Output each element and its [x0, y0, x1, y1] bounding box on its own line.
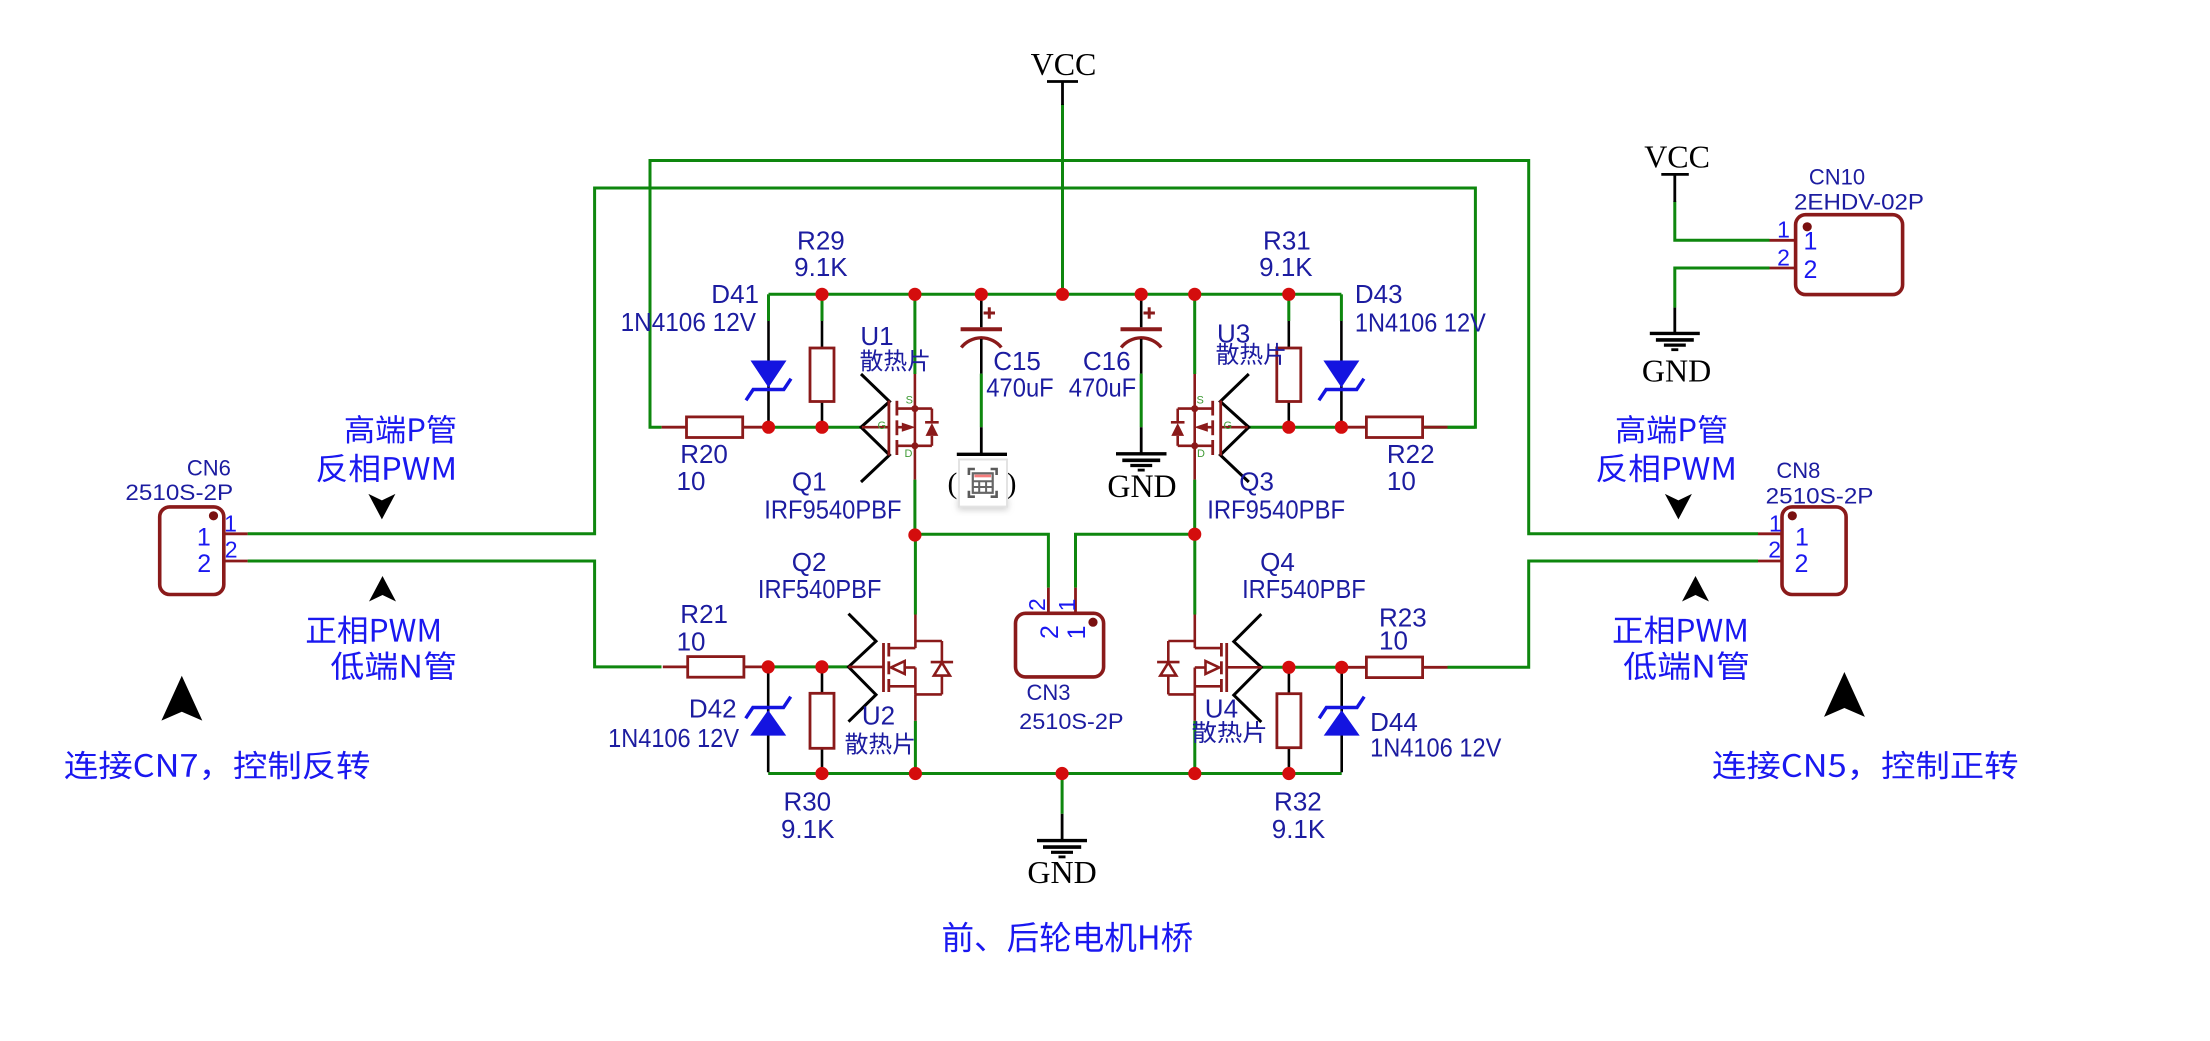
svg-text:U2: U2 — [862, 701, 895, 731]
label C15 value — [986, 346, 1053, 403]
svg-text:9.1K: 9.1K — [1259, 252, 1313, 282]
svg-text:2: 2 — [225, 537, 238, 563]
svg-text:10: 10 — [1387, 466, 1416, 496]
wire CN10.1 from VCC — [1675, 201, 1770, 240]
junction dots gate node left top — [762, 421, 829, 434]
label U3 — [1217, 318, 1250, 348]
junction dots bottom rail — [815, 767, 1295, 780]
wire Q2 drain from motor node — [914, 534, 917, 614]
svg-text:D42: D42 — [689, 694, 737, 724]
svg-text:D41: D41 — [711, 279, 759, 309]
wire bottom GND rail — [768, 772, 1341, 775]
label U1 heatsink text — [861, 349, 929, 371]
wire motor node right to CN3.1 — [1076, 534, 1195, 588]
tooltip icon overlay near C15 GND — [958, 460, 1008, 511]
transistor Q2 (N-MOSFET) — [849, 615, 954, 721]
svg-text:2: 2 — [1804, 256, 1818, 284]
wire D41 top stub — [767, 294, 770, 321]
label U4 — [1205, 694, 1238, 724]
label CN8 — [1766, 458, 1874, 509]
resistor R31 — [1277, 321, 1301, 427]
svg-text:): ) — [1007, 468, 1017, 500]
resistor R30 — [810, 667, 834, 774]
svg-text:GND: GND — [1027, 854, 1096, 890]
svg-text:R21: R21 — [680, 599, 728, 629]
label CN6 — [125, 456, 233, 506]
svg-text:2: 2 — [1768, 537, 1781, 563]
wire CN10.2 to GND — [1675, 268, 1770, 308]
CN8 pin numbers — [1768, 511, 1809, 579]
svg-text:1N4106 12V: 1N4106 12V — [1355, 307, 1486, 337]
wire Q4 gate node — [1261, 666, 1341, 669]
label Q4 value — [1242, 547, 1366, 604]
label R29 value — [794, 226, 848, 283]
svg-text:R30: R30 — [783, 786, 831, 816]
label R32 value — [1272, 786, 1326, 844]
transistor Q1 (P-MOSFET) — [862, 374, 939, 480]
label Q1 value — [764, 466, 901, 524]
label D41 value — [621, 279, 759, 337]
label U2 heatsink text — [846, 732, 914, 754]
svg-text:GND: GND — [1642, 353, 1711, 389]
zener diode D44 — [1319, 667, 1364, 772]
arrow up left — [369, 576, 396, 602]
annotation left low-side — [307, 616, 455, 681]
wire motor node left to CN3.2 — [915, 534, 1049, 588]
ground flag under C16 — [1107, 427, 1176, 505]
Q1 pin names S G D — [877, 394, 913, 460]
label CN3 — [1019, 680, 1123, 734]
svg-text:S: S — [1197, 394, 1204, 406]
svg-text:2: 2 — [1036, 625, 1064, 639]
wire Q3 source to rail — [1193, 294, 1196, 374]
resistor R29 — [810, 321, 834, 427]
connector CN6 box — [160, 507, 248, 595]
svg-text:470uF: 470uF — [1069, 373, 1136, 403]
wire Q4 source to bottom rail — [1193, 721, 1196, 774]
annotation connect CN7 — [65, 751, 369, 780]
label R31 value — [1259, 226, 1313, 283]
connector CN3 box — [1016, 588, 1104, 677]
label R22 value — [1387, 439, 1435, 496]
svg-text:CN10: CN10 — [1809, 165, 1865, 190]
annotation connect CN5 — [1713, 751, 2017, 780]
label U2 — [862, 701, 895, 731]
svg-text:R22: R22 — [1387, 439, 1435, 469]
wire bottom GND stub — [1061, 774, 1064, 814]
CN6 pin numbers — [197, 511, 238, 579]
wire R29 top stub — [821, 294, 824, 321]
resistor R22 — [1342, 417, 1448, 438]
wire C15 mid segment — [980, 374, 983, 428]
wire C16 mid segment — [1140, 374, 1143, 428]
transistor Q4 (N-MOSFET) — [1157, 615, 1262, 721]
svg-text:IRF9540PBF: IRF9540PBF — [1207, 495, 1345, 525]
arrow up right — [1682, 576, 1709, 602]
svg-text:2510S-2P: 2510S-2P — [125, 480, 233, 505]
label D43 value — [1355, 279, 1486, 337]
resistor R20 — [662, 417, 768, 438]
title H-bridge — [943, 922, 1192, 953]
wire VCC stub to top rail — [1061, 104, 1064, 294]
label D44 value — [1370, 707, 1502, 763]
CN10 pin numbers — [1777, 217, 1817, 284]
svg-text:CN6: CN6 — [187, 456, 231, 481]
junction dots gate node right top — [1282, 421, 1348, 434]
capacitor C16 — [1121, 294, 1162, 373]
label Q3 value — [1207, 466, 1345, 524]
svg-text:1: 1 — [224, 511, 237, 537]
svg-text:1N4106 12V: 1N4106 12V — [1370, 733, 1502, 763]
svg-text:C16: C16 — [1083, 346, 1131, 376]
svg-text:D43: D43 — [1355, 279, 1403, 309]
connector CN8 box — [1758, 507, 1846, 595]
heatsink U2 — [849, 614, 877, 722]
label R21 value — [677, 599, 728, 657]
svg-text:S: S — [906, 394, 913, 406]
wire Q2 gate node — [768, 665, 848, 668]
power flag VCC top — [1031, 46, 1097, 105]
label R30 value — [781, 786, 835, 844]
svg-text:2: 2 — [1777, 245, 1790, 271]
svg-text:1: 1 — [1777, 217, 1790, 243]
wire Q3 drain to motor node — [1193, 480, 1196, 535]
svg-text:1: 1 — [1063, 625, 1091, 639]
transistor Q3 (P-MOSFET) — [1171, 374, 1248, 480]
wire Q2 source to bottom rail — [914, 721, 917, 774]
resistor R32 — [1277, 667, 1301, 773]
junction dots top rail — [815, 288, 1295, 301]
connector CN10 box — [1770, 215, 1903, 295]
svg-text:R29: R29 — [797, 226, 845, 256]
svg-text:Q1: Q1 — [792, 466, 827, 496]
zener diode D42 — [746, 667, 791, 772]
svg-text:10: 10 — [677, 627, 706, 657]
svg-text:Q2: Q2 — [792, 547, 827, 577]
svg-text:G: G — [877, 420, 886, 432]
wire Q1 gate node — [769, 426, 863, 429]
svg-text:U4: U4 — [1205, 694, 1238, 724]
junction dots motor nodes — [908, 528, 1201, 542]
resistor R23 — [1342, 657, 1448, 678]
svg-text:2510S-2P: 2510S-2P — [1019, 709, 1123, 734]
svg-text:C15: C15 — [993, 346, 1041, 376]
label U3 heatsink text — [1217, 343, 1285, 365]
junction dots gate node right bottom — [1282, 661, 1348, 674]
label R20 value — [677, 439, 728, 496]
svg-text:R32: R32 — [1274, 786, 1322, 816]
svg-text:GND: GND — [1107, 469, 1176, 505]
svg-text:G: G — [1224, 420, 1233, 432]
wire top VCC/cap rail — [769, 293, 1342, 296]
label U4 heatsink text — [1193, 721, 1266, 743]
label U1 — [860, 321, 893, 351]
heatsink U4 — [1234, 614, 1262, 722]
svg-text:2: 2 — [197, 550, 211, 578]
wire inner loop CN6.1 to R22 (net high-P right) — [248, 188, 1476, 534]
wire D43 top stub — [1340, 294, 1343, 321]
svg-text:1: 1 — [1769, 511, 1782, 537]
svg-text:1N4106 12V: 1N4106 12V — [608, 723, 740, 753]
junction dots gate node left bottom — [762, 660, 829, 673]
ground flag bottom center — [1027, 814, 1096, 890]
big arrow right — [1824, 672, 1865, 717]
svg-text:Q4: Q4 — [1260, 547, 1295, 577]
zener diode D41 — [746, 321, 791, 427]
svg-text:1N4106 12V: 1N4106 12V — [621, 307, 757, 337]
svg-text:9.1K: 9.1K — [794, 252, 848, 282]
wire Q4 drain from motor node — [1193, 534, 1196, 614]
svg-text:9.1K: 9.1K — [1272, 814, 1326, 844]
svg-text:10: 10 — [677, 466, 706, 496]
svg-text:2510S-2P: 2510S-2P — [1766, 484, 1874, 509]
big arrow left — [161, 676, 202, 721]
zener diode D43 — [1319, 321, 1364, 427]
svg-text:D: D — [905, 448, 913, 460]
capacitor C15 — [961, 294, 1002, 373]
svg-text:VCC: VCC — [1644, 139, 1710, 175]
annotation left high-side — [317, 415, 455, 483]
svg-text:R31: R31 — [1263, 226, 1311, 256]
svg-text:VCC: VCC — [1031, 46, 1097, 82]
svg-text:9.1K: 9.1K — [781, 814, 835, 844]
Q3 pin names S G D — [1197, 394, 1233, 460]
label CN10 — [1794, 165, 1924, 215]
svg-text:U1: U1 — [860, 321, 893, 351]
wire R22 right lead to inner loop — [1423, 426, 1476, 429]
wire Q3 gate node — [1248, 426, 1342, 429]
svg-text:2: 2 — [1024, 598, 1050, 611]
wire Q1 drain to motor node — [913, 480, 916, 535]
svg-text:R20: R20 — [680, 439, 728, 469]
svg-text:1: 1 — [1795, 523, 1809, 551]
svg-text:470uF: 470uF — [986, 373, 1053, 403]
resistor R21 — [663, 657, 769, 678]
svg-text:2EHDV-02P: 2EHDV-02P — [1794, 189, 1924, 214]
annotation right low-side — [1614, 616, 1748, 681]
svg-text:(: ( — [948, 468, 958, 500]
label Q2 value — [758, 547, 882, 604]
wire CN6.2 to R21 (net low-N left) — [248, 561, 662, 667]
svg-text:1: 1 — [1804, 228, 1818, 256]
heatsink U1 — [861, 374, 890, 482]
annotation right high-side — [1597, 415, 1734, 483]
svg-text:10: 10 — [1379, 625, 1408, 655]
ground flag right (CN10) — [1642, 308, 1711, 389]
heatsink U3 — [1220, 374, 1249, 482]
wire outer loop CN8.1 to R20 (net high-P left) — [650, 161, 1758, 534]
power flag VCC right — [1644, 139, 1710, 202]
wire R31 top stub — [1287, 294, 1290, 321]
label D42 value — [608, 694, 740, 754]
ground flag under C15 (partly covered) — [948, 427, 1017, 500]
svg-text:IRF540PBF: IRF540PBF — [758, 574, 882, 604]
svg-text:1: 1 — [1054, 599, 1080, 612]
svg-text:IRF540PBF: IRF540PBF — [1242, 574, 1366, 604]
wire Q1 source to rail — [913, 294, 916, 374]
svg-text:2: 2 — [1795, 550, 1809, 578]
label C16 value — [1069, 346, 1136, 403]
svg-text:IRF9540PBF: IRF9540PBF — [764, 495, 901, 525]
svg-text:D: D — [1197, 448, 1205, 460]
svg-text:CN3: CN3 — [1026, 680, 1070, 705]
svg-text:1: 1 — [197, 523, 211, 551]
svg-text:CN8: CN8 — [1776, 458, 1820, 483]
svg-text:Q3: Q3 — [1239, 466, 1274, 496]
arrow down right — [1665, 494, 1692, 520]
arrow down left — [368, 494, 395, 520]
label R23 value — [1379, 603, 1427, 656]
wire CN8.2 to R23 (net low-N right) — [1448, 561, 1759, 667]
CN3 pin numbers (rotated) — [1024, 598, 1091, 639]
